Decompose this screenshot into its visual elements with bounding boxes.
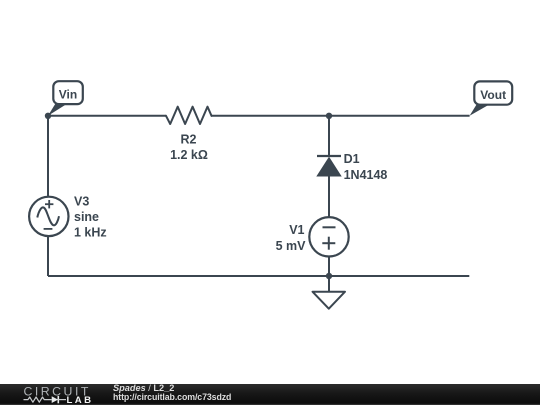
label V1 [289, 223, 304, 237]
wire top right (R2 to Vout) [212, 115, 470, 117]
value 1 kHz [74, 226, 107, 240]
value 1.2 kΩ [170, 148, 208, 162]
logo resistor-diode glyph [24, 396, 67, 403]
junction dot Vin [45, 113, 51, 119]
ground [313, 292, 346, 309]
voltage source V3 [29, 197, 68, 236]
svg-text:V3: V3 [74, 195, 89, 209]
svg-text:Vout: Vout [480, 88, 506, 102]
value 5 mV [276, 239, 307, 253]
wire below V3 [47, 236, 49, 276]
wire top left (Vin to R2) [48, 115, 166, 117]
wire below V1 [328, 256, 330, 276]
junction dot diode branch [326, 113, 332, 119]
svg-text:Vin: Vin [59, 87, 77, 101]
wire to ground [328, 276, 330, 292]
label V3 [74, 195, 89, 209]
resistor R2 [166, 107, 212, 124]
junction dot ground [326, 273, 332, 279]
label D1 [344, 152, 360, 166]
value sine [74, 210, 99, 224]
svg-text:1 kHz: 1 kHz [74, 226, 107, 240]
svg-text:LAB: LAB [67, 395, 94, 405]
footer circuit title [113, 383, 174, 393]
label R2 [181, 132, 197, 146]
logo CIRCUIT text [24, 385, 91, 399]
footer url [113, 392, 231, 402]
logo LAB text [67, 395, 94, 405]
footer bar [0, 384, 540, 405]
wire diode branch top [328, 116, 330, 156]
wire bottom rail [48, 275, 469, 277]
svg-text:1N4148: 1N4148 [344, 168, 388, 182]
node Vout flag [470, 81, 513, 115]
node Vin flag [48, 81, 83, 116]
svg-text:D1: D1 [344, 152, 360, 166]
svg-text:R2: R2 [181, 132, 197, 146]
svg-text:1.2 kΩ: 1.2 kΩ [170, 148, 208, 162]
wire D1 to V1 [328, 176, 330, 217]
value 1N4148 [344, 168, 388, 182]
svg-text:5 mV: 5 mV [276, 239, 307, 253]
svg-text:V1: V1 [289, 223, 304, 237]
voltage source V1 [309, 217, 348, 256]
wire left vertical (Vin to V3) [47, 116, 49, 197]
diode D1 [317, 156, 341, 176]
svg-text:sine: sine [74, 210, 99, 224]
svg-text:http://circuitlab.com/c73sdzd: http://circuitlab.com/c73sdzd [113, 392, 231, 402]
